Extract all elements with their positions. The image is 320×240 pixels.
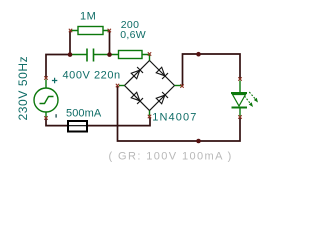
terminal x LED top [238,77,241,80]
svg-text:( GR: 100V 100mA ): ( GR: 100V 100mA ) [109,151,233,163]
wire riser node A to R1 left terminal [69,31,71,55]
svg-text:400V 220n: 400V 220n [63,69,121,81]
LED light arrow 2 [249,92,258,103]
resistor R1 1M leads [71,30,109,32]
diode D4 bottom-right [156,92,168,104]
resistor R1 1M body [78,27,103,35]
wire riser node B to R1 right terminal [109,31,111,55]
LED D5 triangle [233,95,246,107]
terminal x R1 left [69,29,72,32]
AC source sine glyph [40,97,54,104]
terminal x source top [44,76,47,79]
resistor R2 200 body [119,51,143,59]
junction node B dot [107,52,112,57]
terminal x bridge top [148,52,151,55]
diode D2 top-right [156,67,168,79]
svg-text:0,6W: 0,6W [120,29,146,41]
svg-text:1M: 1M [80,11,96,23]
LED light arrow 1 [245,96,254,107]
svg-text:1N4007: 1N4007 [152,111,197,123]
terminal x bridge bottom [148,115,151,118]
diode D3 bottom-left [131,92,143,104]
capacitor C1 leads [71,54,110,56]
wire bridge plus to top-right rail to LED anode [183,54,241,86]
bridge stub top [149,55,151,61]
resistor R2 200 leads [110,54,149,56]
bridge stub right [175,85,182,87]
bridge stub bottom [149,111,151,116]
diode D1 top-left [131,67,143,79]
terminal x bridge left [116,84,119,87]
LED D5 triangle base bar [231,92,247,94]
svg-text:230V 50Hz: 230V 50Hz [16,56,30,121]
label minus (rotated) [55,114,57,117]
LED D5 anode lead [239,81,241,93]
bridge stub left [119,85,125,87]
terminal x source bottom [44,116,47,119]
LED D5 cathode lead [239,109,241,117]
fuse F1 inner line [68,125,87,127]
label plus [52,78,57,83]
wire AC source bottom through fuse to bridge AC2 [46,117,150,126]
terminal x bridge right [180,84,183,87]
LED D5 cathode bar [232,107,248,109]
fuse F1 body [68,121,87,132]
AC source V1 circle [34,88,58,112]
wire from AC source top to node A [46,55,70,78]
junction node A dot [68,52,73,57]
capacitor C1 plates [87,49,94,62]
junction dot bottom rail [196,139,201,144]
wire bridge minus to bottom rail to LED cathode [118,86,241,141]
svg-text:500mA: 500mA [66,107,102,119]
AC source leads [45,80,47,118]
terminal x R1 right [108,29,111,32]
terminal x LED bottom [238,115,241,118]
bridge rectifier diamond [125,61,175,111]
junction dot top rail [196,52,201,57]
